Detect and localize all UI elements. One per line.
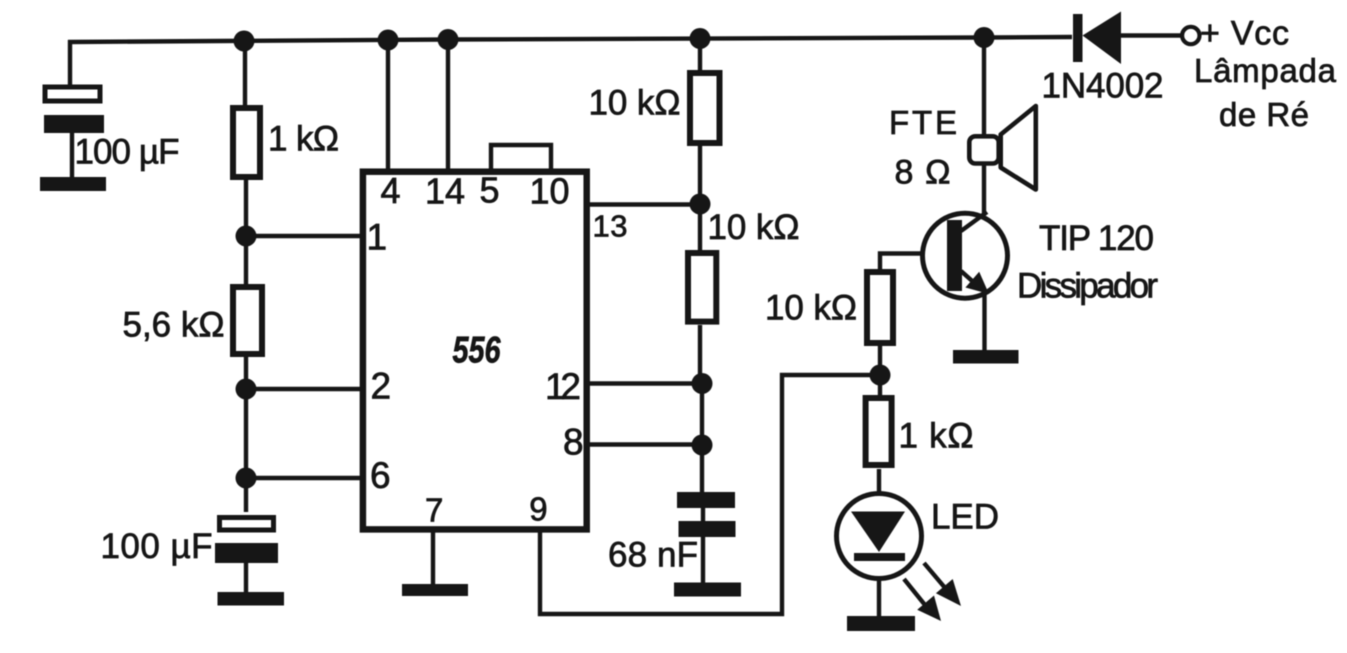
svg-text:12: 12	[545, 366, 581, 407]
svg-text:14: 14	[425, 171, 465, 212]
svg-text:10 kΩ: 10 kΩ	[589, 84, 681, 123]
svg-text:1 kΩ: 1 kΩ	[899, 417, 974, 456]
svg-text:13: 13	[593, 209, 628, 244]
svg-text:LED: LED	[931, 498, 999, 537]
svg-text:8 Ω: 8 Ω	[895, 154, 951, 192]
svg-text:10 kΩ: 10 kΩ	[765, 289, 857, 328]
svg-text:8: 8	[563, 422, 584, 463]
svg-text:7: 7	[425, 492, 443, 529]
svg-text:de Ré: de Ré	[1219, 96, 1309, 133]
svg-text:2: 2	[371, 366, 392, 407]
svg-text:9: 9	[529, 491, 547, 528]
svg-text:6: 6	[370, 455, 391, 496]
svg-text:5: 5	[480, 170, 500, 211]
svg-text:Lâmpada: Lâmpada	[1194, 52, 1337, 89]
svg-text:1: 1	[367, 217, 388, 258]
svg-text:100 µF: 100 µF	[75, 133, 180, 172]
svg-text:68 nF: 68 nF	[608, 536, 698, 575]
svg-text:10 kΩ: 10 kΩ	[708, 208, 800, 247]
svg-text:TIP 120: TIP 120	[1039, 219, 1154, 258]
svg-text:+ Vcc: + Vcc	[1200, 15, 1289, 53]
svg-text:100 µF: 100 µF	[101, 527, 213, 566]
svg-text:FTE: FTE	[889, 104, 957, 141]
svg-text:1N4002: 1N4002	[1042, 67, 1164, 106]
svg-text:4: 4	[381, 170, 401, 211]
svg-text:Dissipador: Dissipador	[1017, 267, 1158, 306]
svg-text:10: 10	[530, 171, 570, 212]
svg-text:1 kΩ: 1 kΩ	[268, 120, 339, 159]
svg-text:556: 556	[453, 330, 501, 371]
svg-text:5,6 kΩ: 5,6 kΩ	[123, 306, 225, 345]
